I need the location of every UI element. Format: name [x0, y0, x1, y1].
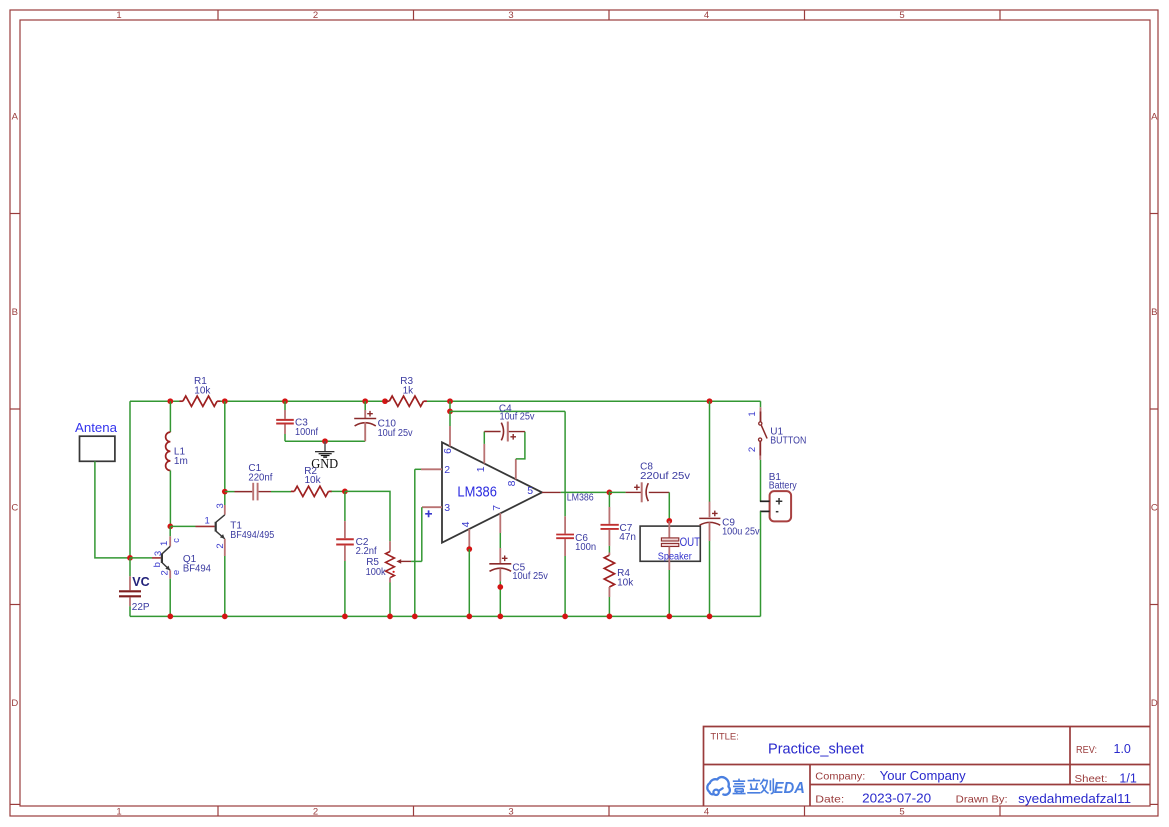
svg-text:47n: 47n	[619, 532, 636, 543]
antenna ANT1 symbol	[80, 436, 115, 461]
svg-text:C: C	[1151, 503, 1158, 514]
C8 plus mark	[634, 485, 640, 491]
wire antenna to node A	[95, 461, 130, 558]
svg-text:3: 3	[215, 503, 226, 508]
C10 plus mark	[367, 411, 373, 417]
svg-text:Battery: Battery	[769, 481, 797, 492]
wire C8 to speaker	[668, 492, 670, 521]
resistor R2 10k	[294, 486, 328, 496]
inductor L1	[169, 401, 171, 432]
resistor R1	[183, 396, 217, 406]
svg-text:100k: 100k	[366, 567, 387, 578]
svg-text:1: 1	[116, 10, 121, 21]
svg-text:2: 2	[444, 464, 450, 476]
wire output to C8	[561, 491, 609, 493]
node Q1 emitter on ground bus	[167, 614, 173, 620]
svg-text:1/1: 1/1	[1119, 771, 1136, 785]
node gnd link	[322, 438, 328, 444]
ground GND symbol	[324, 441, 326, 451]
capacitor C10 10uf 25v	[362, 398, 368, 404]
capacitor C5 10uf 25v bypass	[499, 548, 501, 563]
svg-text:D: D	[1151, 698, 1158, 709]
svg-text:1: 1	[116, 807, 121, 818]
svg-text:B: B	[12, 307, 18, 318]
node R5 bottom on ground bus	[387, 614, 393, 620]
op-amp U LM386 triangle	[442, 442, 542, 542]
wire battery minus to ground bus	[760, 511, 762, 616]
node output junction to C7	[607, 490, 613, 496]
svg-text:7: 7	[491, 505, 503, 511]
svg-text:3: 3	[153, 551, 164, 556]
variable capacitor VC	[129, 558, 131, 576]
wire R2 to node C	[332, 490, 345, 492]
svg-text:EDA: EDA	[774, 780, 805, 797]
capacitor C6 100n supply decoupling	[564, 411, 566, 516]
svg-text:REV:: REV:	[1076, 744, 1097, 756]
svg-text:2: 2	[313, 807, 318, 818]
wire T1 collector to top bus	[224, 401, 226, 491]
svg-text:100nf: 100nf	[295, 427, 318, 438]
svg-text:Your Company: Your Company	[880, 769, 967, 783]
svg-text:B: B	[1151, 307, 1157, 318]
wire button to battery	[760, 460, 762, 501]
svg-text:Speaker: Speaker	[658, 551, 693, 562]
svg-text:Company:: Company:	[815, 771, 865, 783]
node pin2 wire on ground bus	[412, 614, 418, 620]
svg-text:C: C	[11, 503, 18, 514]
C9 plus mark	[712, 511, 718, 517]
wire node C to R5 top	[345, 491, 390, 541]
svg-text:GND: GND	[311, 456, 338, 471]
svg-text:2: 2	[159, 570, 170, 575]
svg-text:3: 3	[508, 807, 513, 818]
capacitor C3 100nf	[282, 398, 288, 404]
svg-text:220nf: 220nf	[248, 473, 272, 484]
op-amp pin 3 non-inverting input	[422, 506, 442, 508]
wire bottom ground bus	[130, 615, 761, 617]
C5 plus mark	[502, 556, 508, 562]
C4 plus mark	[510, 434, 516, 440]
svg-text:5: 5	[527, 485, 533, 497]
svg-text:5: 5	[899, 807, 904, 818]
svg-text:10k: 10k	[617, 578, 634, 589]
svg-text:10uf 25v: 10uf 25v	[512, 571, 548, 582]
node C5 on ground bus	[497, 614, 503, 620]
svg-text:OUT: OUT	[680, 537, 701, 549]
svg-text:Drawn By:: Drawn By:	[956, 793, 1008, 805]
svg-text:b: b	[152, 562, 163, 567]
transistor T1 BF494/495	[170, 525, 195, 527]
svg-text:Practice_sheet: Practice_sheet	[768, 742, 864, 758]
svg-text:1: 1	[747, 411, 758, 416]
capacitor C4 10uf 25v gain cap	[484, 431, 500, 433]
svg-text:2: 2	[747, 447, 758, 452]
svg-text:4: 4	[460, 521, 472, 527]
svg-text:10uf 25v: 10uf 25v	[378, 428, 413, 439]
svg-text:syedahmedafzal11: syedahmedafzal11	[1018, 792, 1131, 806]
svg-text:LM386: LM386	[457, 484, 497, 500]
wire left vertical from top bus to antenna node	[129, 401, 131, 558]
node T1 emitter on ground bus	[222, 614, 228, 620]
capacitor C9 100u 25v supply filter	[709, 401, 711, 502]
svg-text:2: 2	[215, 543, 226, 548]
svg-text:Date:: Date:	[815, 793, 844, 805]
node C1 input junction	[222, 489, 228, 495]
op-amp pin 8 gain	[515, 459, 517, 480]
node speaker on ground bus	[666, 614, 672, 620]
svg-text:8: 8	[506, 480, 518, 486]
wire top supply bus	[130, 400, 761, 402]
op-amp pin 7 bypass	[499, 513, 501, 533]
svg-text:Antena: Antena	[75, 421, 117, 435]
svg-text:10k: 10k	[305, 475, 322, 486]
node C9 on ground bus	[707, 614, 713, 620]
svg-text:10k: 10k	[194, 386, 211, 397]
svg-text:10uf 25v: 10uf 25v	[500, 412, 535, 423]
svg-text:1k: 1k	[403, 386, 415, 397]
svg-text:2.2nf: 2.2nf	[356, 546, 377, 557]
svg-text:A: A	[1151, 112, 1158, 123]
op-amp plus marker	[425, 510, 432, 517]
svg-text:Sheet:: Sheet:	[1075, 773, 1108, 785]
svg-text:e: e	[171, 570, 182, 575]
wire C3 C10 gnd link	[285, 440, 365, 442]
svg-text:TITLE:: TITLE:	[710, 732, 739, 743]
svg-text:4: 4	[704, 10, 709, 21]
capacitor C2 2.2nf	[344, 491, 346, 521]
node C6 on ground bus	[562, 614, 568, 620]
speaker OUT box	[640, 526, 700, 561]
svg-text:BF494: BF494	[183, 563, 211, 574]
node C junction R2/C2/R5	[342, 489, 348, 495]
node R4 on ground bus	[607, 614, 613, 620]
svg-text:LM386: LM386	[567, 493, 594, 504]
capacitor C8 220uf 25v output cap	[609, 491, 626, 493]
node L1 top on bus	[167, 398, 173, 404]
battery B1	[770, 491, 792, 521]
node pin4 on ground bus	[466, 614, 472, 620]
svg-text:1: 1	[159, 541, 170, 546]
op-amp pin 2 inverting input	[421, 468, 442, 470]
node C2 on ground bus	[342, 614, 348, 620]
svg-text:5: 5	[899, 10, 904, 21]
resistor R3 1k	[382, 398, 388, 404]
node C5 bottom wire end	[499, 581, 501, 616]
svg-text:c: c	[171, 538, 182, 543]
svg-text:1m: 1m	[174, 456, 188, 467]
wire pin6 branch to C6 column	[450, 410, 565, 412]
capacitor C1 220nf	[225, 491, 235, 493]
potentiometer R5 100k	[389, 541, 391, 551]
node C9 top on bus	[707, 398, 713, 404]
svg-text:6: 6	[442, 448, 454, 454]
node A junction antenna/VC/Q1 base	[127, 555, 133, 561]
svg-text:BUTTON: BUTTON	[770, 435, 806, 446]
svg-text:3: 3	[508, 10, 513, 21]
capacitor C7 47n zobel	[608, 492, 610, 507]
svg-text:VC: VC	[132, 575, 149, 589]
svg-text:1.0: 1.0	[1114, 742, 1131, 756]
pushbutton U1	[760, 401, 762, 407]
svg-text:100u 25v: 100u 25v	[722, 527, 760, 538]
node B junction L1/Q1 collector/T1 base	[167, 524, 173, 530]
op-amp pin 1 gain	[483, 444, 485, 464]
svg-text:1: 1	[475, 466, 487, 472]
svg-text:2023-07-20: 2023-07-20	[862, 791, 931, 805]
speaker coil symbol	[668, 521, 670, 538]
svg-text:100n: 100n	[575, 542, 596, 553]
svg-text:4: 4	[704, 807, 709, 818]
svg-text:D: D	[11, 698, 18, 709]
svg-text:BF494/495: BF494/495	[230, 530, 274, 541]
svg-text:1: 1	[205, 515, 210, 526]
op-amp pin 4 ground	[468, 529, 470, 549]
svg-text:3: 3	[444, 502, 450, 514]
svg-text:A: A	[12, 112, 19, 123]
node pin4 wire end	[466, 546, 472, 552]
op-amp pin 6 supply	[447, 398, 453, 404]
resistor R4 10k zobel	[608, 553, 610, 556]
node T1 collector line on bus	[222, 398, 228, 404]
node speaker top	[666, 518, 672, 524]
transistor Q1 BF494	[130, 557, 152, 559]
op-amp pin 5 output	[542, 491, 561, 493]
svg-text:220uf 25v: 220uf 25v	[640, 471, 690, 482]
svg-text:2: 2	[313, 10, 318, 21]
svg-text:22P: 22P	[132, 602, 150, 613]
